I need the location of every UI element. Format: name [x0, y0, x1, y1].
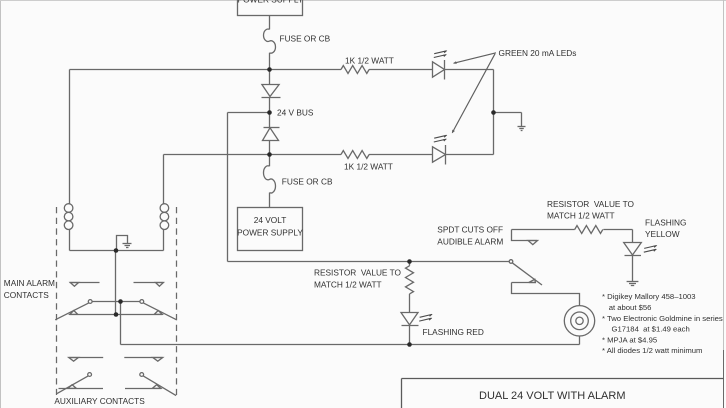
svg-text:MATCH 1/2 WATT: MATCH 1/2 WATT [314, 279, 382, 289]
svg-text:GREEN 20 mA LEDs: GREEN 20 mA LEDs [499, 48, 577, 58]
svg-text:SPDT CUTS OFF: SPDT CUTS OFF [437, 225, 503, 235]
svg-text:MATCH 1/2 WATT: MATCH 1/2 WATT [547, 211, 615, 221]
svg-text:RESISTOR VALUE TO: RESISTOR VALUE TO [314, 268, 402, 278]
svg-text:RESISTOR VALUE TO: RESISTOR VALUE TO [547, 199, 635, 209]
svg-text:FUSE OR CB: FUSE OR CB [280, 34, 331, 44]
svg-text:YELLOW: YELLOW [645, 229, 680, 239]
svg-text:DUAL 24 VOLT WITH ALARM: DUAL 24 VOLT WITH ALARM [479, 390, 626, 402]
svg-text:* MPJA at $4.95: * MPJA at $4.95 [602, 335, 657, 344]
svg-text:POWER SUPPLY: POWER SUPPLY [238, 0, 304, 5]
svg-text:24 VOLT: 24 VOLT [254, 215, 287, 225]
svg-text:* Two Electronic Goldmine in s: * Two Electronic Goldmine in series [602, 314, 723, 323]
svg-text:CONTACTS: CONTACTS [4, 290, 49, 300]
svg-text:AUDIBLE ALARM: AUDIBLE ALARM [437, 237, 503, 247]
svg-text:at about $56: at about $56 [609, 303, 652, 312]
svg-text:POWER SUPPLY: POWER SUPPLY [237, 227, 303, 237]
svg-text:1K 1/2 WATT: 1K 1/2 WATT [344, 161, 393, 171]
svg-text:FUSE OR CB: FUSE OR CB [282, 177, 333, 187]
svg-text:FLASHING: FLASHING [645, 218, 687, 228]
svg-text:FLASHING RED: FLASHING RED [423, 327, 484, 337]
svg-text:G17184 at $1.49 each: G17184 at $1.49 each [612, 325, 690, 334]
svg-text:24 V BUS: 24 V BUS [277, 107, 314, 117]
svg-text:* All diodes 1/2 watt minimum: * All diodes 1/2 watt minimum [602, 346, 702, 355]
svg-text:1K 1/2 WATT: 1K 1/2 WATT [345, 56, 394, 66]
svg-text:* Digikey Mallory 458–1003: * Digikey Mallory 458–1003 [602, 292, 696, 301]
svg-text:AUXILIARY CONTACTS: AUXILIARY CONTACTS [54, 396, 145, 406]
svg-text:MAIN ALARM: MAIN ALARM [4, 278, 55, 288]
